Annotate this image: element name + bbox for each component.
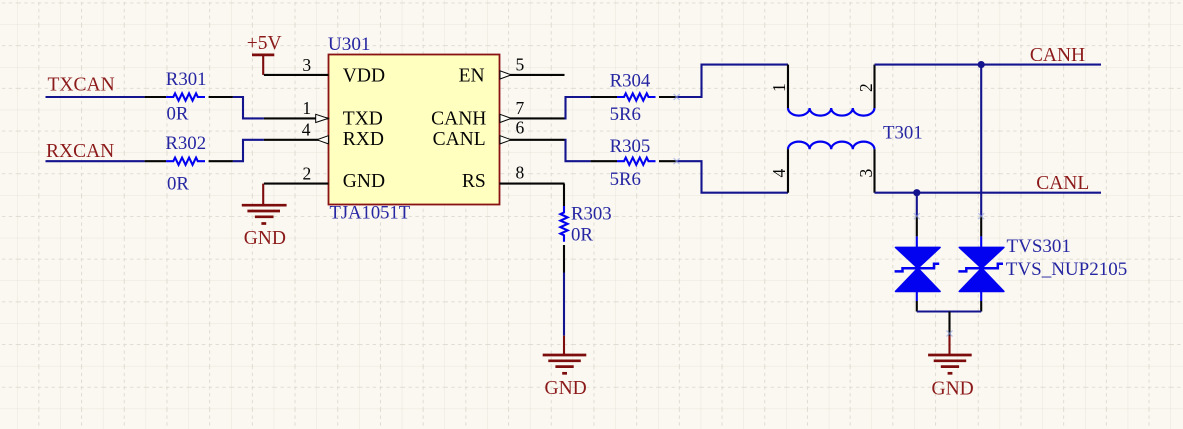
pin 7 CANH [500, 98, 565, 122]
svg-text:GND: GND [343, 171, 385, 192]
net label RXCAN [46, 141, 114, 162]
wire CANH pin to R304 [565, 97, 591, 118]
svg-text:0R: 0R [167, 174, 189, 195]
junction CANH node [978, 61, 985, 68]
pin 4 RXD [264, 120, 329, 144]
svg-text:RS: RS [462, 171, 486, 192]
svg-text:TXCAN: TXCAN [48, 74, 115, 95]
svg-text:CANH: CANH [1030, 45, 1085, 66]
svg-text:2: 2 [303, 164, 312, 184]
svg-text:7: 7 [516, 98, 525, 118]
svg-text:1: 1 [302, 98, 311, 118]
wire CANL pin to R305 [565, 140, 591, 161]
wire CANH to TVS right [980, 65, 982, 217]
wire R304 to T301 pin1 [677, 65, 788, 97]
wire CANH rail [875, 64, 1102, 66]
pin 8 RS [500, 163, 565, 184]
resistor R302 [145, 133, 233, 195]
net label CANH [1030, 45, 1085, 66]
wire RXCAN [46, 160, 145, 162]
wire TVS bottoms [917, 310, 981, 312]
svg-text:TVS301: TVS301 [1007, 236, 1071, 257]
svg-text:3: 3 [302, 55, 311, 75]
node marker at TVS right pin [978, 213, 984, 219]
svg-text:CANH: CANH [431, 109, 486, 130]
svg-text:CANL: CANL [1036, 173, 1089, 194]
svg-text:5R6: 5R6 [610, 169, 641, 190]
resistor R303 [560, 203, 611, 272]
svg-text:3: 3 [856, 169, 876, 178]
pin 1 TXD [264, 98, 329, 123]
wire CANL rail [875, 192, 1102, 194]
svg-text:VDD: VDD [343, 66, 385, 87]
svg-text:4: 4 [769, 169, 789, 178]
svg-text:R305: R305 [610, 136, 651, 157]
svg-text:EN: EN [459, 66, 485, 87]
pin 6 CANL [500, 118, 565, 144]
ground GND (TVS) [928, 336, 974, 400]
svg-text:5R6: 5R6 [610, 104, 641, 125]
svg-text:1: 1 [769, 83, 789, 92]
resistor R301 [145, 69, 233, 125]
svg-text:TVS_NUP2105: TVS_NUP2105 [1006, 259, 1127, 280]
svg-text:2: 2 [856, 83, 876, 92]
node marker at GND wire [947, 331, 953, 337]
svg-text:RXD: RXD [343, 129, 384, 150]
svg-text:4: 4 [302, 120, 311, 140]
svg-text:0R: 0R [571, 224, 593, 245]
ground GND (pin 2) [242, 184, 287, 249]
power port +5V [247, 33, 282, 75]
svg-text:CANL: CANL [433, 129, 486, 150]
wire CANL to TVS left [916, 193, 918, 217]
svg-text:R302: R302 [165, 133, 206, 154]
pin 5 EN [500, 54, 565, 79]
svg-text:0R: 0R [167, 104, 189, 125]
svg-text:GND: GND [545, 378, 587, 399]
svg-text:U301: U301 [328, 34, 371, 55]
svg-text:R303: R303 [571, 203, 612, 224]
svg-text:TXD: TXD [343, 109, 383, 130]
net label CANL [1036, 173, 1089, 194]
svg-text:RXCAN: RXCAN [46, 141, 114, 162]
net label TXCAN [48, 74, 115, 95]
pin 3 VDD [264, 55, 329, 75]
wire TXCAN [46, 96, 145, 98]
svg-text:5: 5 [516, 54, 525, 74]
svg-text:R301: R301 [166, 69, 207, 90]
wire RS to R303 [563, 184, 566, 206]
svg-text:GND: GND [932, 378, 974, 399]
svg-text:TJA1051T: TJA1051T [330, 202, 411, 223]
wire R303 to GND [563, 273, 565, 336]
resistor R304 [591, 70, 677, 125]
ground GND (R303) [543, 336, 587, 399]
svg-text:8: 8 [516, 163, 525, 183]
svg-text:R304: R304 [610, 70, 651, 91]
TVS diode TVS301 right [958, 216, 1127, 311]
TVS diode TVS301 left [895, 216, 941, 311]
junction CANL node [913, 189, 920, 196]
svg-text:T301: T301 [883, 123, 923, 144]
node marker at R304 output [674, 94, 680, 100]
wire TVS to GND [948, 312, 950, 336]
resistor R305 [591, 136, 677, 190]
svg-text:6: 6 [516, 118, 525, 138]
pin 2 GND [264, 164, 329, 184]
node marker at TVS left pin [914, 213, 920, 219]
svg-text:+5V: +5V [247, 33, 282, 54]
op-amp U301 IC body TJA1051T [328, 34, 500, 224]
wire R305 to T301 pin4 [677, 161, 788, 193]
wire R302 to RXD [233, 140, 264, 161]
transformer T301 [769, 65, 923, 193]
node marker at R305 output [674, 158, 680, 164]
wire R301 to TXD [233, 97, 264, 118]
svg-text:GND: GND [244, 228, 286, 249]
